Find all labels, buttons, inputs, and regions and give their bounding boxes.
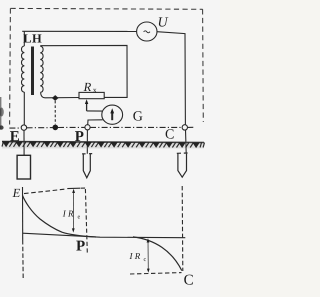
svg-text:R: R [83,80,92,94]
svg-text:C: C [184,272,194,288]
svg-text:e: e [78,215,81,221]
svg-text:x: x [93,86,97,95]
svg-text:LH: LH [23,32,42,46]
svg-text:E: E [10,129,20,145]
svg-text:c: c [144,257,147,263]
svg-text:C: C [165,127,174,142]
svg-text:U: U [158,15,169,30]
svg-text:E: E [12,186,21,200]
svg-text:P: P [75,129,84,145]
svg-text:G: G [133,110,143,125]
svg-text:I R: I R [62,209,74,219]
svg-text:I R: I R [129,251,141,261]
svg-text:P: P [76,239,85,255]
